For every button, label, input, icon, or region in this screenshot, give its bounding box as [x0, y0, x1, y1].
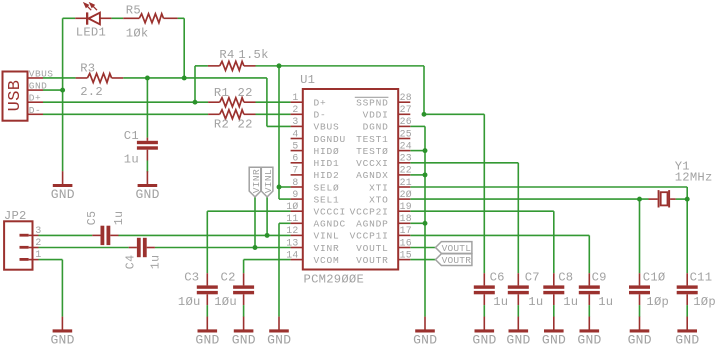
- svg-text:28: 28: [400, 92, 412, 103]
- svg-text:GND: GND: [628, 332, 652, 346]
- wire VINL net (JP2-3 / C5 / pin 12): [39, 197, 291, 236]
- svg-text:1: 1: [292, 92, 298, 103]
- svg-text:1Ø: 1Ø: [286, 201, 298, 212]
- svg-text:GND: GND: [472, 332, 496, 346]
- ground under C2: [232, 317, 256, 346]
- junction VDDI at SEL0: [277, 185, 282, 190]
- ground under C8: [542, 317, 566, 346]
- pin 19 (VCCP2I) of U1: [350, 201, 412, 218]
- svg-text:14: 14: [286, 249, 298, 260]
- svg-text:22: 22: [238, 86, 253, 100]
- ground under JP2 pin 1: [51, 317, 75, 346]
- svg-text:15: 15: [400, 249, 412, 260]
- svg-text:2: 2: [292, 104, 298, 115]
- capacitor C6 1u: [474, 270, 509, 309]
- wire XTI net: [410, 187, 687, 273]
- pin 17 (VCCP1I) of U1: [350, 225, 412, 242]
- wire C3 to ground: [206, 305, 208, 317]
- pin 3 of JP2: [20, 225, 42, 237]
- svg-text:13: 13: [286, 237, 298, 248]
- svg-text:R3: R3: [80, 61, 95, 75]
- junction VINR at pin 13: [253, 245, 258, 250]
- svg-text:3: 3: [292, 116, 298, 127]
- svg-text:GND: GND: [506, 332, 530, 346]
- svg-text:1Øp: 1Øp: [693, 295, 716, 309]
- wire VINR net (JP2-2 / C4 / pin 13): [39, 197, 291, 248]
- junction USB GND / LED: [60, 88, 65, 93]
- svg-text:C6: C6: [490, 270, 505, 284]
- svg-text:1u: 1u: [563, 295, 578, 309]
- svg-text:1Øk: 1Øk: [126, 26, 149, 40]
- svg-text:AGNDC: AGNDC: [314, 219, 347, 230]
- wire XTO net: [410, 199, 687, 273]
- svg-text:SEL1: SEL1: [314, 194, 340, 205]
- svg-text:GND: GND: [195, 332, 219, 346]
- svg-text:C1Ø: C1Ø: [643, 270, 666, 284]
- svg-text:C2: C2: [221, 270, 236, 284]
- ground under USB: [51, 171, 75, 202]
- svg-text:GND: GND: [51, 187, 75, 202]
- svg-text:VBUS: VBUS: [314, 122, 340, 133]
- svg-text:23: 23: [400, 153, 412, 164]
- pin 1 of JP2: [20, 249, 42, 261]
- svg-text:VDDI: VDDI: [363, 110, 389, 121]
- svg-text:16: 16: [400, 237, 412, 248]
- wire VCCP1I to C9: [410, 235, 589, 273]
- junction XTO / C10: [637, 197, 642, 202]
- capacitor C2 10u: [214, 270, 254, 309]
- svg-text:7: 7: [292, 165, 298, 176]
- pin 12 (VINL) of U1: [286, 225, 339, 242]
- wire D+ net: [43, 101, 291, 103]
- svg-text:GND: GND: [136, 187, 160, 202]
- junction ground bus at AGNDP: [423, 221, 428, 226]
- pin D- of USB: [28, 105, 44, 116]
- svg-text:USB: USB: [6, 80, 25, 112]
- svg-text:1Øu: 1Øu: [178, 295, 201, 309]
- svg-text:12: 12: [286, 225, 298, 236]
- svg-text:GND: GND: [675, 332, 699, 346]
- svg-text:1.5k: 1.5k: [238, 48, 268, 62]
- svg-text:XTI: XTI: [369, 182, 389, 193]
- svg-text:R1: R1: [214, 86, 229, 100]
- junction ground bus at TEST0: [423, 148, 428, 153]
- pin 8 (SEL0) of U1: [291, 177, 340, 194]
- svg-text:DGND: DGND: [363, 122, 389, 133]
- capacitor C3 10u: [178, 270, 218, 309]
- svg-text:C8: C8: [558, 270, 573, 284]
- svg-text:D-: D-: [314, 110, 327, 121]
- wire AGNDC pin 11 to ground: [279, 223, 291, 316]
- LED LED1: [75, 3, 111, 39]
- svg-text:AGNDX: AGNDX: [356, 170, 389, 181]
- wire C2 to ground: [243, 305, 245, 317]
- net label VOUTL (flag): [436, 242, 472, 254]
- svg-text:TEST1: TEST1: [356, 134, 389, 145]
- svg-text:1u: 1u: [493, 295, 508, 309]
- svg-text:D-: D-: [29, 105, 41, 116]
- junction VBUS / C1: [145, 76, 150, 81]
- svg-text:DGNDU: DGNDU: [314, 134, 347, 145]
- connector USB: [3, 72, 28, 121]
- svg-text:26: 26: [400, 116, 412, 127]
- svg-text:1u: 1u: [113, 211, 126, 226]
- svg-text:1Øp: 1Øp: [646, 295, 669, 309]
- pin 20 (XTO) of U1: [369, 189, 412, 206]
- svg-text:XTO: XTO: [369, 194, 389, 205]
- pin 15 (VOUTR) of U1: [356, 249, 412, 266]
- pin D+ of USB: [28, 93, 44, 104]
- pin 6 (HID1) of U1: [291, 153, 340, 170]
- svg-text:VINL: VINL: [263, 169, 274, 193]
- svg-text:2Ø: 2Ø: [400, 189, 412, 200]
- svg-text:C7: C7: [525, 270, 540, 284]
- ground under C10: [628, 317, 652, 346]
- ground under C9: [577, 317, 601, 346]
- svg-text:AGNDP: AGNDP: [356, 219, 389, 230]
- svg-text:8: 8: [292, 177, 298, 188]
- capacitor C5 1u: [86, 211, 126, 246]
- pin 9 (SEL1) of U1: [291, 189, 340, 206]
- svg-text:9: 9: [292, 189, 298, 200]
- svg-text:GND: GND: [232, 332, 256, 346]
- ground of digital bus: [413, 317, 437, 346]
- svg-text:1u: 1u: [528, 295, 543, 309]
- svg-text:2: 2: [35, 237, 41, 248]
- pin 23 (VCCXI) of U1: [356, 153, 412, 170]
- svg-text:18: 18: [400, 213, 412, 224]
- svg-text:JP2: JP2: [4, 209, 27, 223]
- junction VDDI / SEL tie: [277, 63, 282, 68]
- ground under C3: [195, 317, 219, 346]
- junction VINL at pin 12: [265, 233, 270, 238]
- pin 1 (D+) of U1: [291, 92, 327, 109]
- svg-text:1u: 1u: [124, 152, 139, 166]
- wire LED cathode to USB GND net (vertical left): [62, 18, 64, 90]
- pin GND of USB: [28, 81, 48, 92]
- pin 7 (HID2) of U1: [291, 165, 340, 182]
- wire VCOM pin 14 to C2: [244, 260, 291, 274]
- capacitor C7 1u: [508, 270, 544, 309]
- capacitor C10 10p: [629, 270, 669, 309]
- svg-text:GND: GND: [542, 332, 566, 346]
- pin 2 of JP2: [20, 237, 42, 249]
- svg-text:HIDØ: HIDØ: [314, 146, 340, 157]
- ground under C1: [136, 171, 160, 202]
- wire LED/R5 top net: [63, 18, 185, 78]
- pin 14 (VCOM) of U1: [286, 249, 339, 266]
- pin 16 (VOUTL) of U1: [356, 237, 412, 254]
- wire D- net: [43, 113, 291, 115]
- junction VDDI at pin 27: [422, 112, 427, 117]
- capacitor C1 1u: [124, 129, 158, 167]
- svg-text:C3: C3: [184, 270, 199, 284]
- net label VINR (flag): [249, 167, 262, 197]
- svg-text:VINR: VINR: [251, 169, 262, 193]
- pin 5 (HID0) of U1: [291, 140, 340, 157]
- svg-text:VCCXI: VCCXI: [356, 158, 389, 169]
- svg-text:HID2: HID2: [314, 170, 340, 181]
- svg-text:R4: R4: [219, 48, 234, 62]
- svg-text:22: 22: [400, 165, 412, 176]
- svg-text:21: 21: [400, 177, 412, 188]
- wire VCCCI to C3: [207, 211, 290, 273]
- resistor R5 10k: [123, 4, 177, 41]
- net label VINL (flag): [261, 167, 274, 197]
- svg-text:D+: D+: [29, 93, 41, 104]
- svg-text:4: 4: [292, 128, 298, 139]
- pin 11 (AGNDC) of U1: [286, 213, 346, 230]
- wire C9 to ground: [588, 305, 590, 317]
- svg-text:VCCP2I: VCCP2I: [350, 207, 389, 218]
- resistor R4 1.5k: [208, 48, 269, 70]
- wire C1 branch of VBUS net: [146, 78, 148, 138]
- svg-text:1u: 1u: [149, 255, 162, 270]
- net label VOUTR (flag): [436, 254, 472, 266]
- op-amp U1 PCM2900E (USB audio codec IC body): [300, 73, 398, 287]
- svg-text:6: 6: [292, 153, 298, 164]
- svg-text:2.2: 2.2: [80, 85, 103, 99]
- svg-text:5: 5: [292, 140, 298, 151]
- svg-text:GND: GND: [413, 332, 437, 346]
- wire VOUTL pin 16 to flag: [410, 247, 435, 249]
- svg-text:1u: 1u: [598, 295, 613, 309]
- svg-text:U1: U1: [300, 73, 315, 87]
- pin 28 (SSPND) of U1: [356, 92, 412, 109]
- resistor R2 22: [208, 110, 255, 132]
- wire C11 to ground: [686, 305, 688, 317]
- svg-text:VCOM: VCOM: [314, 255, 340, 266]
- capacitor C4 1u: [125, 238, 163, 269]
- svg-text:R2: R2: [214, 117, 229, 131]
- junction VBUS / R5: [182, 76, 187, 81]
- svg-text:C4: C4: [125, 255, 138, 270]
- svg-text:VCCP1I: VCCP1I: [350, 231, 389, 242]
- pin 2 (D-) of U1: [291, 104, 327, 121]
- wire C1 to ground: [146, 161, 148, 173]
- ground under C6: [472, 317, 496, 346]
- svg-text:TESTØ: TESTØ: [356, 146, 389, 157]
- capacitor C8 1u: [543, 270, 578, 309]
- svg-text:VINR: VINR: [314, 243, 340, 254]
- wire VCCXI to C7: [410, 163, 518, 273]
- wire C10 to ground: [639, 305, 641, 317]
- wire VOUTR pin 15 to flag: [410, 259, 435, 261]
- pin 10 (VCCCI) of U1: [286, 201, 346, 218]
- crystal Y1 12MHz: [649, 159, 713, 207]
- svg-text:SELØ: SELØ: [314, 182, 340, 193]
- svg-text:1: 1: [35, 249, 41, 260]
- svg-text:C1: C1: [124, 129, 139, 143]
- svg-text:VINL: VINL: [314, 231, 340, 242]
- wire USB GND pin to GND symbol: [43, 90, 63, 171]
- svg-text:VOUTR: VOUTR: [356, 255, 389, 266]
- svg-text:27: 27: [400, 104, 412, 115]
- svg-text:GND: GND: [29, 81, 47, 92]
- pin VBUS of USB: [28, 68, 54, 79]
- wire VCCP2I to C8: [410, 211, 554, 273]
- svg-text:C5: C5: [86, 211, 99, 226]
- resistor R3 2.2: [76, 61, 124, 99]
- pin 24 (TEST0) of U1: [356, 140, 412, 157]
- svg-text:19: 19: [400, 201, 412, 212]
- svg-text:VOUTL: VOUTL: [442, 243, 472, 254]
- pin 25 (TEST1) of U1: [356, 128, 412, 145]
- pin 18 (AGNDP) of U1: [356, 213, 412, 230]
- pin 22 (AGNDX) of U1: [356, 165, 412, 182]
- pin 13 (VINR) of U1: [286, 237, 339, 254]
- pin 21 (XTI) of U1: [369, 177, 412, 194]
- wire VBUS net: [43, 78, 291, 126]
- svg-text:R5: R5: [126, 4, 141, 18]
- svg-text:C9: C9: [592, 270, 607, 284]
- wire R4 pull-up to D+ net: [195, 66, 208, 102]
- svg-text:D+: D+: [314, 98, 327, 109]
- svg-text:17: 17: [400, 225, 412, 236]
- connector JP2: [4, 209, 33, 270]
- junction D+ / R4: [193, 100, 198, 105]
- svg-text:12MHz: 12MHz: [675, 171, 713, 185]
- wire SEL0/SEL1 tie to VDDI: [279, 66, 291, 199]
- wire C6 to ground: [483, 305, 485, 317]
- junction XTI / crystal / C11: [685, 197, 690, 202]
- wire C7 to ground: [517, 305, 519, 317]
- pin 4 (DGNDU) of U1: [291, 128, 346, 145]
- svg-text:LED1: LED1: [76, 25, 106, 39]
- svg-text:11: 11: [286, 213, 298, 224]
- svg-text:1Øu: 1Øu: [214, 295, 237, 309]
- svg-text:22: 22: [238, 117, 253, 131]
- svg-text:GND: GND: [267, 332, 291, 346]
- svg-text:25: 25: [400, 128, 412, 139]
- svg-text:GND: GND: [577, 332, 601, 346]
- pin 27 (VDDI) of U1: [363, 104, 412, 121]
- pin 3 (VBUS) of U1: [291, 116, 340, 133]
- svg-text:VCCCI: VCCCI: [314, 207, 347, 218]
- svg-text:PCM29ØØE: PCM29ØØE: [304, 273, 365, 287]
- wire JP2 pin 1 to ground: [39, 260, 63, 317]
- ground under C11: [675, 317, 699, 346]
- svg-text:SSPND: SSPND: [356, 98, 389, 109]
- svg-text:VOUTR: VOUTR: [442, 255, 472, 266]
- ground under C7: [506, 317, 530, 346]
- wire C8 to ground: [553, 305, 555, 317]
- svg-text:HID1: HID1: [314, 158, 340, 169]
- wire R4 to VDDI net: [256, 66, 425, 114]
- svg-text:3: 3: [35, 225, 41, 236]
- svg-text:C11: C11: [690, 270, 713, 284]
- resistor R1 22: [208, 86, 255, 107]
- svg-text:GND: GND: [51, 332, 75, 346]
- wire DGND/TEST0/AGNDX/AGNDP ground bus: [410, 126, 425, 316]
- pin 26 (DGND) of U1: [363, 116, 412, 133]
- svg-text:24: 24: [400, 140, 412, 151]
- svg-text:VOUTL: VOUTL: [356, 243, 389, 254]
- ground under AGNDC: [267, 317, 291, 346]
- svg-text:VBUS: VBUS: [29, 68, 54, 79]
- capacitor C11 10p: [677, 270, 716, 309]
- junction ground bus at AGNDX: [423, 172, 428, 177]
- capacitor C9 1u: [579, 270, 614, 309]
- wire VDDI to C6: [424, 114, 484, 273]
